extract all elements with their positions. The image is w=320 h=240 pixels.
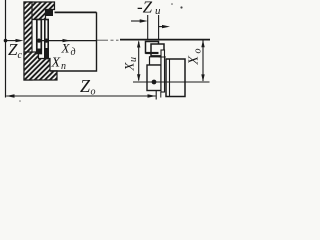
hob block B thick base xyxy=(146,52,159,54)
svg-text:Z: Z xyxy=(8,40,18,59)
neck xyxy=(150,57,162,65)
node dot B on centerline xyxy=(44,39,48,43)
hob axis centerline xyxy=(133,81,210,83)
speck xyxy=(171,3,173,5)
hob block A xyxy=(146,42,159,54)
flange strip xyxy=(161,50,165,92)
hob block B xyxy=(151,44,164,57)
table reference line (right figure) xyxy=(120,39,210,41)
-Zu tick 1 xyxy=(147,15,149,40)
svg-text:и: и xyxy=(128,57,139,62)
hob axis dot xyxy=(152,80,157,85)
Zo right arrowhead xyxy=(148,94,156,97)
mandrel bar xyxy=(45,20,48,59)
svg-text:Z: Z xyxy=(80,76,91,96)
centerline through workpiece with Xd arrow xyxy=(39,40,97,42)
workpiece right and bottom edges xyxy=(50,12,97,71)
hatched bottom arm of fixture xyxy=(24,52,57,80)
flange lower stub xyxy=(160,92,162,98)
svg-text:д: д xyxy=(71,47,76,58)
svg-text:о: о xyxy=(193,49,204,54)
Zo right extension line xyxy=(155,90,157,100)
extension line left (x=5.5 full height) xyxy=(5,0,7,98)
hatched column (left wall of fixture) xyxy=(24,2,32,80)
clamp pad (solid) xyxy=(46,10,53,16)
svg-text:-Z: -Z xyxy=(137,0,153,17)
dimension Zc arrow (centerline y=40.6 from x=5.5 to column face) xyxy=(6,40,18,42)
Xu dimension (vertical, left of hob) xyxy=(138,42,140,81)
speck 3 xyxy=(19,100,21,102)
node dot on centerline at extension line xyxy=(4,39,8,43)
label Xu (rotated) xyxy=(122,57,140,72)
speck 2 xyxy=(180,6,182,8)
workpiece outline xyxy=(55,11,97,13)
centerline dashes to right figure xyxy=(97,39,119,41)
svg-text:с: с xyxy=(18,50,23,61)
-Zu left dimension arrow xyxy=(131,20,141,22)
mandrel bar dark foot xyxy=(44,48,48,59)
direction arrow at tick 2 xyxy=(159,26,163,28)
flange tick xyxy=(159,56,166,58)
Xo dimension (vertical, right) xyxy=(202,41,204,82)
svg-text:о: о xyxy=(91,87,96,98)
mandrel face line xyxy=(37,20,42,54)
svg-text:X: X xyxy=(187,56,202,66)
gear blank (big rect) xyxy=(166,59,185,97)
gear blank inner edge xyxy=(169,59,171,97)
arbor housing xyxy=(147,65,161,91)
label Xo (rotated) xyxy=(187,49,204,66)
Zo left arrowhead xyxy=(6,94,14,97)
svg-text:X: X xyxy=(122,62,137,72)
bottom dimension Zo line xyxy=(6,95,156,97)
hob block B thick base 2 xyxy=(151,55,164,57)
node dot A on centerline xyxy=(37,39,41,43)
bar1 dark foot xyxy=(37,49,42,55)
-Zu tick 2 xyxy=(158,15,160,40)
hatched clamp (top arm of fixture) xyxy=(24,2,55,20)
svg-text:X: X xyxy=(61,41,71,56)
svg-text:X: X xyxy=(51,56,61,71)
svg-text:и: и xyxy=(155,5,161,17)
